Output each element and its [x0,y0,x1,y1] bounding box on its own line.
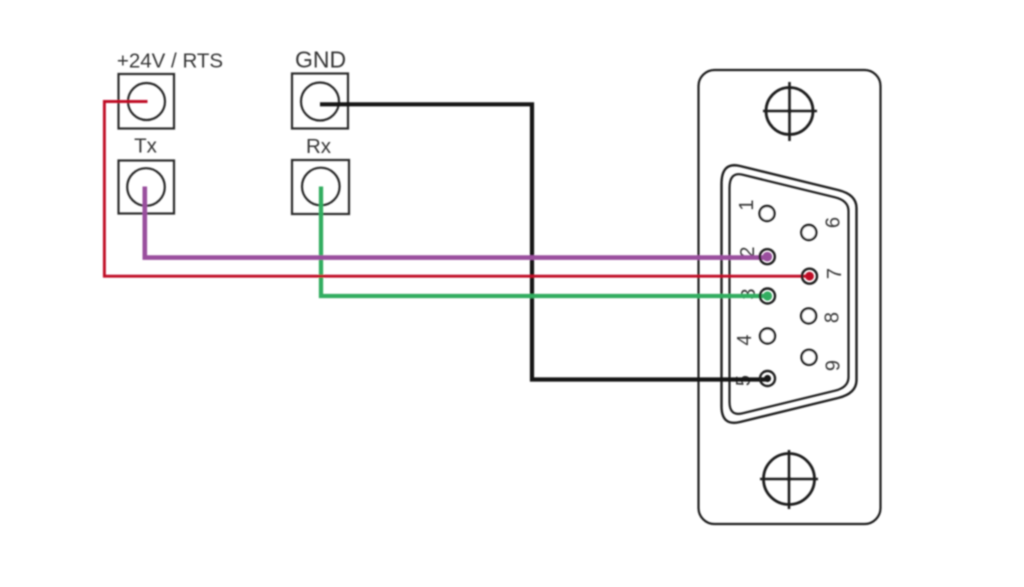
svg-text:GND: GND [295,47,346,73]
svg-text:9: 9 [823,360,845,371]
DB9 D-sub shell outer outline [722,165,857,423]
svg-text:4: 4 [734,334,756,345]
DB9 connector outer body [699,70,881,524]
wire black: GND to pin 5 [320,104,768,379]
terminal +24V/RTS circle [128,83,165,120]
terminal GND circle [301,83,339,121]
terminal Tx box [119,161,175,214]
terminal Tx circle [127,168,165,206]
svg-text:6: 6 [823,217,845,228]
pin 2 (purple wire terminates) [763,252,773,262]
svg-text:1: 1 [736,199,758,210]
terminal +24V/RTS box [119,74,175,129]
svg-text:Rx: Rx [306,135,332,158]
terminal Rx box [292,160,349,214]
svg-text:Tx: Tx [134,134,158,157]
wire red: +24V/RTS to pin 7 [104,102,809,277]
wire purple: Tx to pin 2 [145,187,768,258]
DB9 bottom screw hole [760,450,818,509]
pin 7 (red wire terminates) [805,272,814,281]
svg-text:7: 7 [824,268,846,279]
wire green: Rx to pin 3 [321,187,768,297]
svg-text:+24V / RTS: +24V / RTS [117,49,223,72]
pin 5 (black wire terminates) [764,375,771,382]
pin 4 [760,329,775,344]
DB9 top screw hole [763,82,817,141]
terminal GND box [292,74,348,129]
pin 9 [802,350,817,365]
terminal Rx circle [302,168,340,206]
pin 8 [801,308,816,323]
pin 3 (green wire terminates) [763,291,772,300]
DB9 D-sub shell inner outline [730,174,849,414]
pin 6 [801,225,816,240]
pin 1 [760,206,775,221]
svg-text:8: 8 [822,312,844,323]
